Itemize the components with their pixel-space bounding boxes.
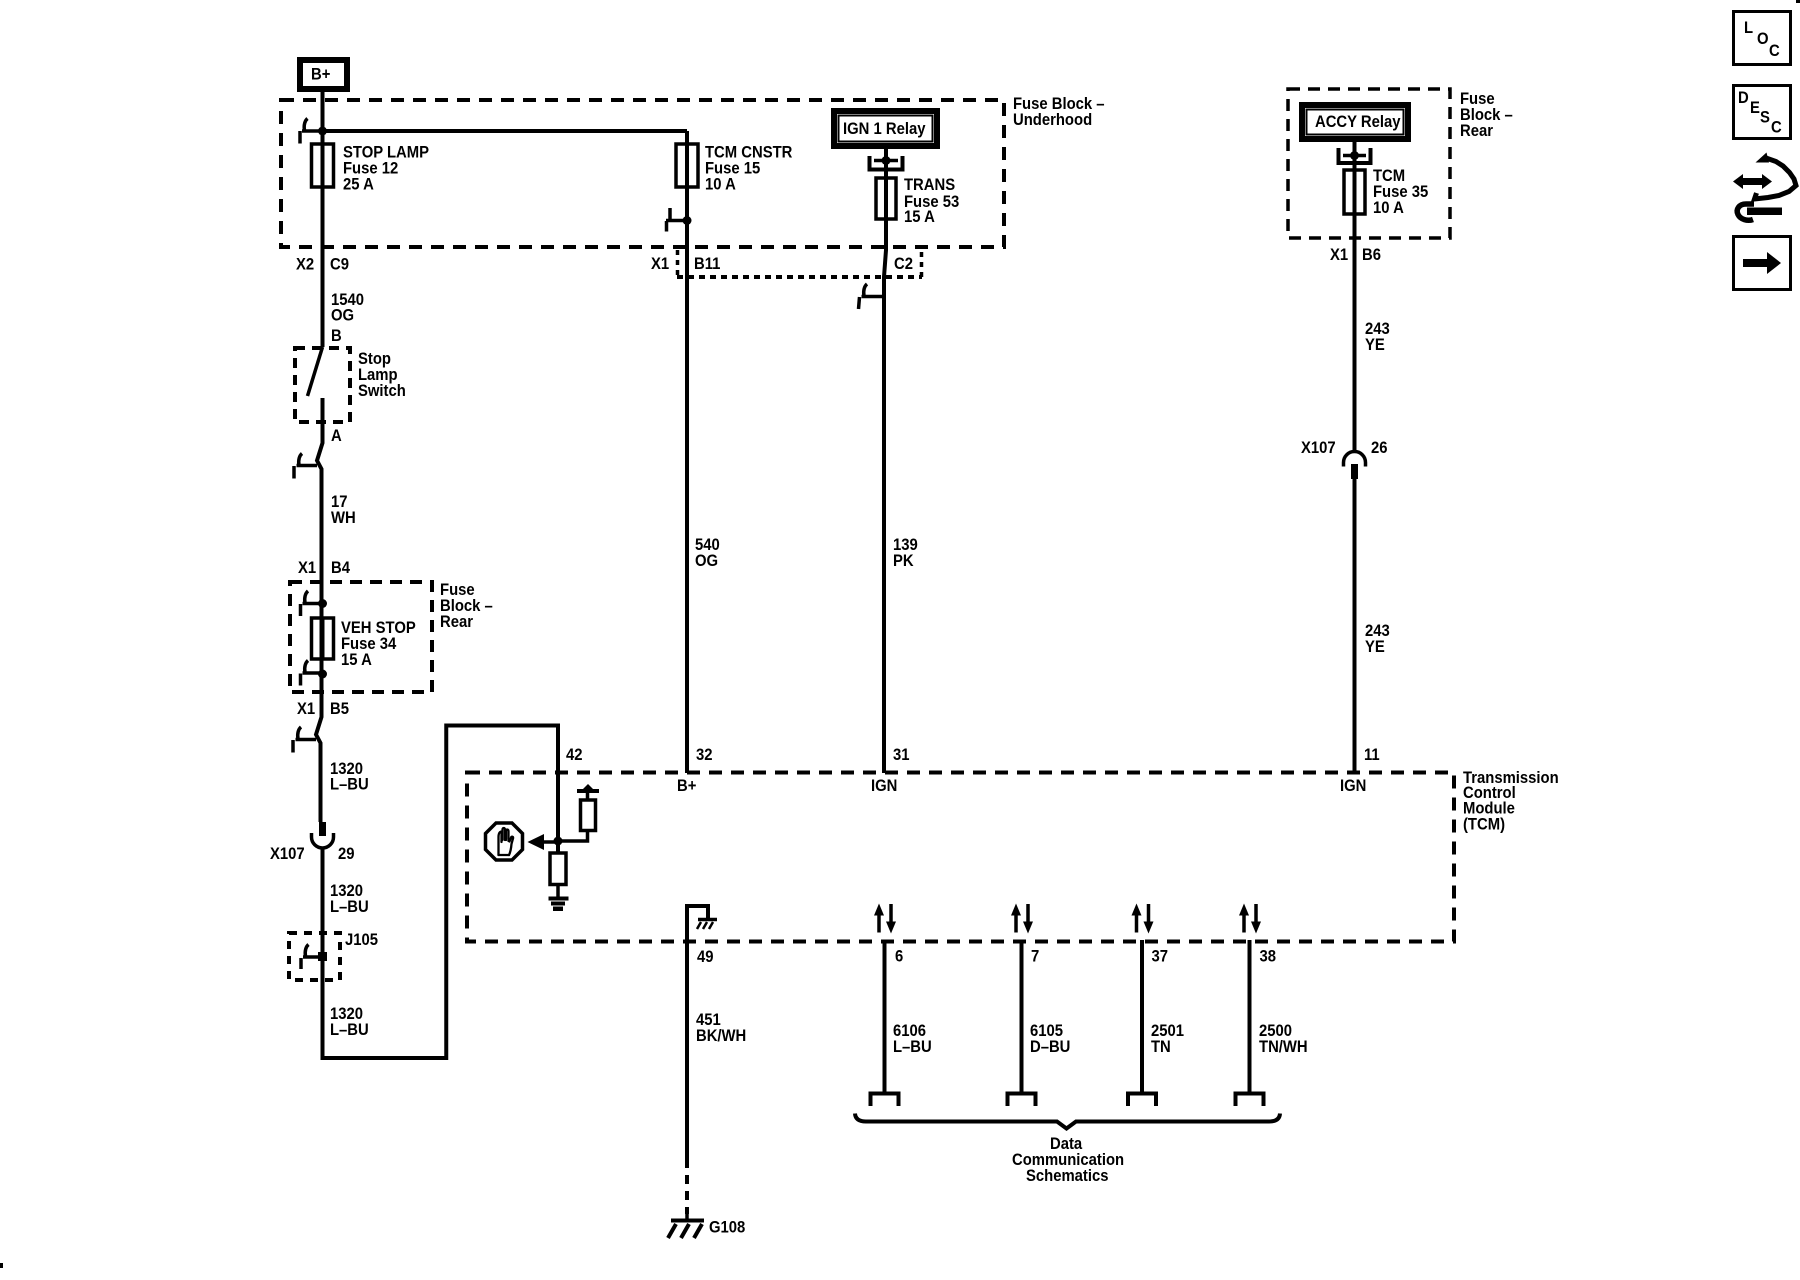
svg-text:C: C bbox=[1771, 119, 1782, 137]
svg-text:10 A: 10 A bbox=[1373, 199, 1404, 217]
svg-text:32: 32 bbox=[696, 746, 713, 764]
svg-text:ACCY Relay: ACCY Relay bbox=[1315, 113, 1401, 131]
svg-text:YE: YE bbox=[1365, 638, 1385, 656]
svg-text:29: 29 bbox=[338, 845, 355, 863]
svg-text:A: A bbox=[331, 427, 342, 445]
svg-text:O: O bbox=[1757, 30, 1769, 48]
svg-text:25 A: 25 A bbox=[343, 176, 374, 194]
svg-text:Rear: Rear bbox=[440, 613, 473, 631]
svg-text:IGN 1 Relay: IGN 1 Relay bbox=[843, 120, 926, 138]
svg-text:WH: WH bbox=[331, 509, 356, 527]
svg-text:S: S bbox=[1760, 109, 1770, 127]
svg-text:Switch: Switch bbox=[358, 382, 406, 400]
svg-text:C2: C2 bbox=[894, 255, 913, 273]
svg-text:TN: TN bbox=[1151, 1038, 1171, 1056]
svg-text:L–BU: L–BU bbox=[893, 1038, 932, 1056]
svg-text:X1: X1 bbox=[1330, 246, 1348, 264]
svg-text:B: B bbox=[331, 327, 342, 345]
svg-text:B4: B4 bbox=[331, 559, 350, 577]
svg-text:PK: PK bbox=[893, 552, 914, 570]
svg-text:L–BU: L–BU bbox=[330, 1021, 369, 1039]
svg-text:6: 6 bbox=[895, 948, 904, 966]
svg-text:B+: B+ bbox=[677, 777, 696, 795]
svg-text:L–BU: L–BU bbox=[330, 898, 369, 916]
svg-text:X107: X107 bbox=[270, 845, 305, 863]
svg-text:YE: YE bbox=[1365, 336, 1385, 354]
svg-text:26: 26 bbox=[1371, 439, 1388, 457]
svg-text:OG: OG bbox=[695, 552, 718, 570]
svg-text:IGN: IGN bbox=[871, 777, 897, 795]
svg-text:D–BU: D–BU bbox=[1030, 1038, 1070, 1056]
svg-text:7: 7 bbox=[1031, 948, 1040, 966]
svg-text:38: 38 bbox=[1260, 948, 1277, 966]
svg-text:L–BU: L–BU bbox=[330, 776, 369, 794]
svg-text:TRANS: TRANS bbox=[904, 176, 955, 194]
svg-text:15 A: 15 A bbox=[341, 651, 372, 669]
svg-text:10 A: 10 A bbox=[705, 176, 736, 194]
svg-text:15 A: 15 A bbox=[904, 208, 935, 226]
svg-text:X1: X1 bbox=[298, 559, 316, 577]
svg-text:C9: C9 bbox=[330, 256, 349, 274]
svg-text:BK/WH: BK/WH bbox=[696, 1027, 746, 1045]
svg-text:IGN: IGN bbox=[1340, 777, 1366, 795]
svg-text:31: 31 bbox=[893, 746, 910, 764]
svg-text:E: E bbox=[1750, 99, 1760, 117]
svg-text:L: L bbox=[1744, 19, 1753, 37]
svg-text:X1: X1 bbox=[297, 700, 315, 718]
svg-text:B11: B11 bbox=[694, 255, 721, 273]
svg-text:D: D bbox=[1738, 89, 1749, 107]
svg-text:OG: OG bbox=[331, 307, 354, 325]
svg-text:Schematics: Schematics bbox=[1026, 1167, 1109, 1185]
svg-text:Underhood: Underhood bbox=[1013, 111, 1092, 129]
svg-text:B5: B5 bbox=[330, 700, 349, 718]
svg-text:C: C bbox=[1769, 42, 1780, 60]
svg-text:X107: X107 bbox=[1301, 439, 1336, 457]
svg-text:J105: J105 bbox=[345, 931, 378, 949]
svg-text:X1: X1 bbox=[651, 255, 669, 273]
svg-text:G108: G108 bbox=[709, 1219, 746, 1237]
svg-text:37: 37 bbox=[1152, 948, 1169, 966]
svg-text:Rear: Rear bbox=[1460, 122, 1493, 140]
svg-text:B+: B+ bbox=[311, 66, 330, 84]
svg-text:11: 11 bbox=[1364, 746, 1380, 764]
svg-text:42: 42 bbox=[566, 746, 583, 764]
svg-text:49: 49 bbox=[697, 948, 714, 966]
svg-text:TN/WH: TN/WH bbox=[1259, 1038, 1308, 1056]
svg-text:(TCM): (TCM) bbox=[1463, 816, 1505, 834]
svg-text:B6: B6 bbox=[1362, 246, 1381, 264]
svg-text:X2: X2 bbox=[296, 256, 314, 274]
